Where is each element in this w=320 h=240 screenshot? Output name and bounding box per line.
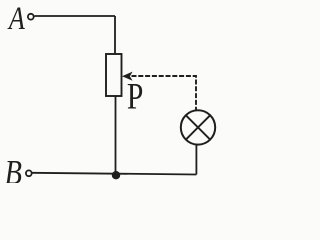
wire lamp bottom [195, 145, 197, 175]
svg-text:B: B [5, 153, 22, 183]
potentiometer wiper arrow [122, 72, 133, 81]
wire bottom horizontal [32, 173, 196, 175]
terminal A [28, 14, 34, 20]
wiper dashed line horizontal and vertical to lamp [132, 76, 197, 110]
svg-text:A: A [7, 1, 25, 37]
wire A top horizontal [34, 15, 115, 17]
potentiometer P body [106, 54, 122, 96]
svg-text:P: P [127, 77, 143, 118]
terminal B [26, 170, 32, 176]
lamp L [181, 110, 215, 144]
junction node [112, 171, 120, 179]
wire potentiometer bottom vertical [115, 96, 117, 174]
wire top vertical down to potentiometer [114, 16, 116, 54]
